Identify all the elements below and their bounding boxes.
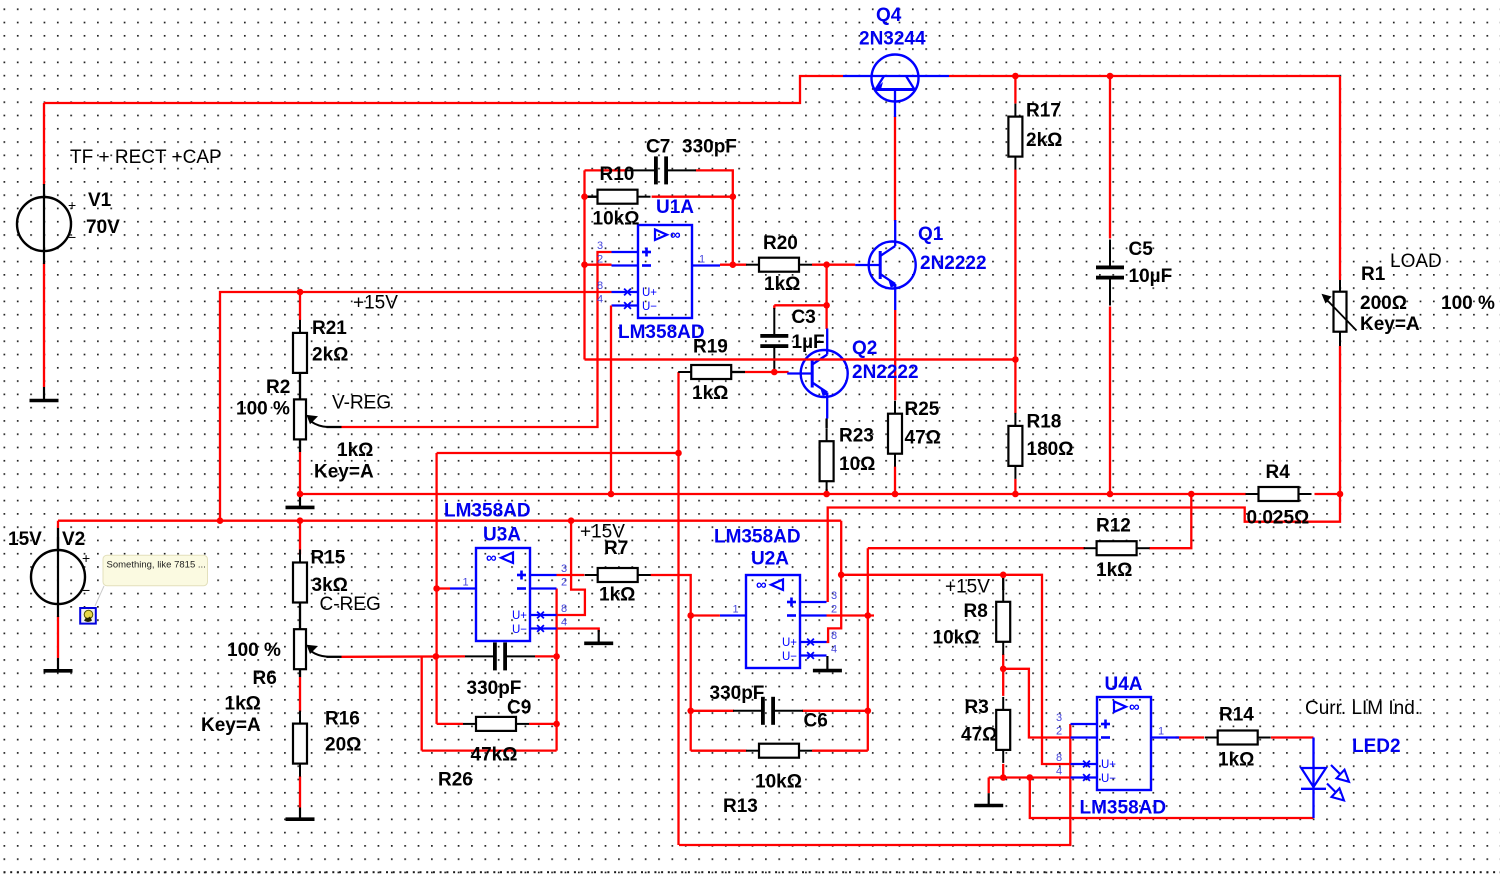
wire C7 row right xyxy=(696,170,733,264)
svg-text:10µF: 10µF xyxy=(1129,266,1173,287)
svg-text:R10: R10 xyxy=(600,164,635,185)
svg-text:4: 4 xyxy=(561,617,567,629)
wire +15V rail top xyxy=(220,292,612,521)
svg-text:LOAD: LOAD xyxy=(1390,251,1442,272)
ground U2A pin4 xyxy=(813,656,842,671)
svg-text:47Ω: 47Ω xyxy=(905,428,941,449)
resistor R16 xyxy=(293,711,307,777)
wire C6 row left xyxy=(691,710,734,712)
wire R17 top xyxy=(1014,76,1016,104)
svg-text:47kΩ: 47kΩ xyxy=(471,745,518,766)
ground R3/U4A xyxy=(974,793,1003,805)
svg-text:0.025Ω: 0.025Ω xyxy=(1247,508,1310,529)
wire R6 bottom black xyxy=(299,669,301,677)
svg-text:R12: R12 xyxy=(1096,516,1131,537)
svg-text:R18: R18 xyxy=(1027,412,1062,433)
wire V2 bottom red xyxy=(57,616,59,658)
ground V2 xyxy=(44,658,73,671)
node Q2 base xyxy=(771,369,778,376)
svg-text:LED2: LED2 xyxy=(1352,736,1401,757)
svg-text:LM358AD: LM358AD xyxy=(714,527,801,548)
wire U3A out row xyxy=(437,452,679,454)
page edge tick row xyxy=(4,871,1500,873)
wire R4 right to rail xyxy=(1315,493,1341,495)
node bus A / R12 riser xyxy=(1188,491,1195,498)
node R3 bottom xyxy=(1000,774,1007,781)
node C3 top xyxy=(823,302,830,309)
resistor R19 xyxy=(678,365,744,379)
svg-text:4: 4 xyxy=(597,294,603,306)
wire +15V branch to R8 xyxy=(841,575,1070,764)
svg-text:1kΩ: 1kΩ xyxy=(337,440,373,461)
node pin4 row branch xyxy=(1027,774,1034,781)
svg-text:U+: U+ xyxy=(1101,759,1116,771)
wire U2A pin2 stub xyxy=(826,614,874,616)
svg-text:R1: R1 xyxy=(1361,264,1386,285)
wire right rail upper xyxy=(1339,76,1341,280)
node R10 right xyxy=(730,193,737,200)
svg-text:R13: R13 xyxy=(723,796,758,817)
node R17/R18 xyxy=(1012,356,1019,363)
svg-text:3kΩ: 3kΩ xyxy=(312,575,348,596)
svg-text:1: 1 xyxy=(699,254,705,266)
wire R15 to R6 xyxy=(299,603,301,629)
svg-text:2: 2 xyxy=(597,254,603,266)
node out row / R19 riser xyxy=(675,450,682,457)
wire U3A pin2 riser xyxy=(555,589,557,751)
svg-text:V2: V2 xyxy=(62,529,85,550)
svg-text:Key=A: Key=A xyxy=(314,461,374,482)
svg-text:R23: R23 xyxy=(839,426,874,447)
resistor R20 xyxy=(746,258,812,272)
node bus A / R25 xyxy=(892,491,899,498)
svg-text:1: 1 xyxy=(463,577,469,589)
svg-text:∞: ∞ xyxy=(1129,699,1140,716)
resistor R7 xyxy=(585,568,651,582)
svg-text:C9: C9 xyxy=(507,698,531,719)
op-amp U4A xyxy=(1056,697,1179,790)
wire R17 bottom to R18 node xyxy=(1014,170,1016,414)
svg-text:100 %: 100 % xyxy=(236,399,290,420)
potentiometer R1 (rheostat) xyxy=(1322,280,1357,346)
wire C5 top xyxy=(1109,76,1111,239)
node C6 left xyxy=(687,708,694,715)
svg-text:C7: C7 xyxy=(646,137,670,158)
node +15V / R21 xyxy=(297,289,304,296)
wire R18 bottom xyxy=(1014,479,1016,494)
wire U4A pin4 ground row xyxy=(989,776,1071,778)
wire R3 bottom xyxy=(1002,764,1004,778)
svg-text:3: 3 xyxy=(1056,712,1062,724)
wire right rail lower xyxy=(1339,346,1341,494)
wire R7 right to U2A out riser xyxy=(651,575,691,751)
svg-text:1µF: 1µF xyxy=(792,332,825,353)
wire top rail right xyxy=(949,75,1340,77)
svg-text:2kΩ: 2kΩ xyxy=(1026,130,1062,151)
node bus C / U3A U+ xyxy=(568,517,575,524)
resistor R4 xyxy=(1246,487,1312,501)
svg-text:C5: C5 xyxy=(1129,239,1154,260)
svg-text:U+: U+ xyxy=(642,287,657,299)
svg-text:−: − xyxy=(68,229,76,245)
wire R14 to LED xyxy=(1271,736,1314,738)
svg-text:R17: R17 xyxy=(1026,101,1061,122)
svg-text:2N2222: 2N2222 xyxy=(920,253,987,274)
svg-text:+: + xyxy=(68,197,76,213)
node bus C / x220 xyxy=(217,517,224,524)
wire V1 bottom lead xyxy=(43,263,45,387)
svg-text:U3A: U3A xyxy=(483,525,521,546)
svg-text:U4A: U4A xyxy=(1105,674,1143,695)
svg-text:Curr. LIM Ind.: Curr. LIM Ind. xyxy=(1305,698,1420,719)
svg-text:U−: U− xyxy=(782,651,797,663)
capacitor C9 xyxy=(465,642,535,670)
svg-text:8: 8 xyxy=(831,630,837,642)
wire ground drop left xyxy=(988,778,990,794)
node R8 bottom xyxy=(1000,666,1007,673)
wire R12 row xyxy=(868,547,1085,549)
node U2A out xyxy=(687,612,694,619)
op-amp U3A xyxy=(450,548,567,641)
svg-text:R6: R6 xyxy=(253,668,277,689)
wire U1A pin2 stub xyxy=(585,264,612,266)
wire R8/R3 node to U4A pin2 xyxy=(1003,669,1070,738)
svg-text:2: 2 xyxy=(831,604,837,616)
svg-text:1: 1 xyxy=(733,604,739,616)
svg-text:1kΩ: 1kΩ xyxy=(599,585,635,606)
wire R26 row right xyxy=(529,723,557,725)
potentiometer R6 xyxy=(294,629,342,669)
svg-text:−: − xyxy=(82,582,90,598)
wire R21 to R2 xyxy=(299,373,301,400)
svg-text:LM358AD: LM358AD xyxy=(444,501,531,522)
wire R13 row right xyxy=(812,750,868,752)
svg-text:1kΩ: 1kΩ xyxy=(1096,560,1132,581)
wire U1A pin4 riser xyxy=(610,306,612,495)
node C6 right xyxy=(865,708,872,715)
ground bus A xyxy=(286,494,315,507)
wire C5 bottom xyxy=(1109,307,1111,495)
source V1 xyxy=(17,184,76,264)
svg-text:R20: R20 xyxy=(763,233,798,254)
svg-text:R19: R19 xyxy=(693,337,728,358)
svg-text:2: 2 xyxy=(561,577,567,589)
svg-text:Something, like 7815 ...: Something, like 7815 ... xyxy=(107,560,206,571)
svg-text:10kΩ: 10kΩ xyxy=(933,628,980,649)
wire U1A pin2 feedback overdraw xyxy=(585,358,1016,360)
svg-text:U−: U− xyxy=(512,624,527,636)
wire U2A out to riser xyxy=(691,614,720,616)
svg-text:4: 4 xyxy=(831,644,837,656)
capacitor C7 xyxy=(626,156,696,184)
svg-text:330pF: 330pF xyxy=(710,683,765,704)
wire C3 top branch xyxy=(774,304,826,306)
wire R8 bottom xyxy=(1002,654,1004,669)
wire Q1 node down to Q2 collector xyxy=(825,265,827,329)
ground R16 xyxy=(286,808,315,820)
svg-text:U2A: U2A xyxy=(751,549,789,570)
svg-text:3: 3 xyxy=(561,563,567,575)
svg-text:U+: U+ xyxy=(512,610,527,622)
wire R19 right stub xyxy=(732,371,745,373)
svg-text:330pF: 330pF xyxy=(467,678,522,699)
resistor R25 xyxy=(888,401,902,467)
svg-text:∞: ∞ xyxy=(756,577,767,594)
transistor Q4 2N3244 xyxy=(843,55,949,118)
wire V2 top xyxy=(57,521,59,528)
wire U4A pin3 riser xyxy=(679,724,1070,845)
svg-text:C-REG: C-REG xyxy=(320,594,381,615)
svg-text:4: 4 xyxy=(1056,766,1062,778)
wire C9 loop bottom xyxy=(422,749,557,751)
svg-text:2kΩ: 2kΩ xyxy=(312,345,348,366)
wire U1A out to R20 xyxy=(720,264,747,266)
node bus A / R23 xyxy=(823,491,830,498)
svg-text:R15: R15 xyxy=(311,548,346,569)
svg-text:8: 8 xyxy=(597,280,603,292)
transistor Q1 2N2222 xyxy=(855,220,916,310)
wire U3A pin3 to R7 xyxy=(557,574,585,576)
wire bus B xyxy=(828,494,1340,602)
wire R10 right to C7 node xyxy=(652,196,733,198)
op-amp U2A xyxy=(720,575,837,668)
node U1A pin2 xyxy=(581,261,588,268)
node U1A out xyxy=(730,261,737,268)
svg-text:U−: U− xyxy=(1101,773,1116,785)
node R10 left xyxy=(581,193,588,200)
svg-text:1kΩ: 1kΩ xyxy=(692,383,728,404)
svg-text:V-REG: V-REG xyxy=(332,393,391,414)
svg-text:U+: U+ xyxy=(782,637,797,649)
wire U2A pin2 riser xyxy=(867,548,869,751)
wire R25 bottom xyxy=(894,467,896,495)
potentiometer R2 xyxy=(294,399,342,439)
svg-text:R26: R26 xyxy=(438,770,473,791)
svg-text:15V: 15V xyxy=(8,529,42,550)
svg-text:1kΩ: 1kΩ xyxy=(1218,750,1254,771)
wire R21 top xyxy=(299,292,301,320)
wire Q1 emitter down to R25 xyxy=(894,310,896,400)
node bus A / U1A pin4 xyxy=(608,491,615,498)
svg-text:3: 3 xyxy=(597,240,603,252)
node wiper / C9 left xyxy=(433,653,440,660)
wire C7 left riser xyxy=(583,170,585,359)
node C9 right xyxy=(553,653,560,660)
node Q1 base xyxy=(823,261,830,268)
svg-text:TF + RECT +CAP: TF + RECT +CAP xyxy=(70,147,222,168)
comment note box xyxy=(95,555,208,606)
resistor R3 xyxy=(996,697,1010,763)
wire U3A out to pin1 xyxy=(437,587,450,589)
svg-text:330pF: 330pF xyxy=(682,137,737,158)
wire R20 to Q1 base xyxy=(812,264,855,266)
svg-text:R14: R14 xyxy=(1219,705,1254,726)
svg-text:R7: R7 xyxy=(604,538,628,559)
svg-text:100 %: 100 % xyxy=(227,640,281,661)
resistor R17 xyxy=(1008,104,1022,170)
node bus A / R4 right xyxy=(1337,491,1344,498)
wire C9 loop left riser xyxy=(421,656,423,750)
transistor Q2 2N2222 xyxy=(787,329,848,419)
wire C6 row right xyxy=(802,710,868,712)
svg-text:70V: 70V xyxy=(86,217,120,238)
node R8 top xyxy=(1000,572,1007,579)
LED LED2 xyxy=(1301,738,1349,819)
wire R8 top black xyxy=(1002,576,1004,590)
node bus A / R18 xyxy=(1012,491,1019,498)
svg-text:∞: ∞ xyxy=(670,227,681,244)
node bus A / R2 xyxy=(297,491,304,498)
svg-text:Q2: Q2 xyxy=(852,338,877,359)
svg-text:∞: ∞ xyxy=(486,550,497,567)
node bus C / R15 xyxy=(297,517,304,524)
resistor R10 xyxy=(585,190,651,204)
svg-text:Key=A: Key=A xyxy=(201,715,261,736)
wire R2 wiper to U1A pin3 xyxy=(342,252,612,427)
svg-text:V1: V1 xyxy=(88,190,112,211)
resistor R8 xyxy=(996,589,1010,655)
svg-text:LM358AD: LM358AD xyxy=(618,322,705,343)
wire LED return row xyxy=(1030,778,1314,819)
resistor R14 xyxy=(1205,731,1271,745)
wire R19 left riser xyxy=(677,372,679,845)
wire R6 to R16 xyxy=(299,677,301,712)
capacitor C5 xyxy=(1096,240,1124,306)
svg-text:+15V: +15V xyxy=(945,577,990,598)
resistor R26 xyxy=(463,717,529,731)
node bus A / C5 xyxy=(1107,491,1114,498)
source V2 xyxy=(31,537,90,617)
svg-text:LM358AD: LM358AD xyxy=(1080,798,1167,819)
svg-text:R8: R8 xyxy=(964,601,988,622)
svg-text:200Ω: 200Ω xyxy=(1360,293,1407,314)
svg-text:+: + xyxy=(82,550,90,566)
wire R3 top xyxy=(1002,669,1004,696)
wire U4A out to R14 xyxy=(1176,736,1204,738)
svg-text:2N2222: 2N2222 xyxy=(852,362,919,383)
wire U3A pin4 to ground xyxy=(557,629,599,633)
svg-text:C3: C3 xyxy=(792,307,816,328)
svg-text:10kΩ: 10kΩ xyxy=(755,772,802,793)
wire ground bus A xyxy=(300,493,1246,495)
wire R12 right riser xyxy=(1149,494,1191,548)
ground V1 xyxy=(30,387,59,401)
svg-text:8: 8 xyxy=(561,603,567,615)
wire R26 row left xyxy=(437,723,463,725)
svg-text:R21: R21 xyxy=(312,318,347,339)
svg-text:180Ω: 180Ω xyxy=(1027,439,1074,460)
svg-text:2N3244: 2N3244 xyxy=(859,29,926,50)
wire R2 to ground bus xyxy=(299,452,301,494)
node +15V branch xyxy=(838,572,845,579)
ground U3A pin4 xyxy=(584,630,613,643)
svg-text:Q1: Q1 xyxy=(918,224,944,245)
resistor R18 xyxy=(1008,413,1022,479)
svg-text:2: 2 xyxy=(1056,726,1062,738)
wire V1 to top rail xyxy=(44,76,843,103)
svg-text:100 %: 100 % xyxy=(1441,293,1495,314)
svg-text:R4: R4 xyxy=(1266,462,1291,483)
node R26 right xyxy=(553,721,560,728)
wire Q4 base down to Q1 xyxy=(894,116,896,221)
svg-text:47Ω: 47Ω xyxy=(961,725,997,746)
svg-text:10Ω: 10Ω xyxy=(839,454,875,475)
comment note icon xyxy=(80,608,96,624)
svg-text:U−: U− xyxy=(642,301,657,313)
svg-text:R25: R25 xyxy=(905,399,940,420)
svg-text:R2: R2 xyxy=(266,377,290,398)
svg-text:1kΩ: 1kΩ xyxy=(764,274,800,295)
wire C7 row left xyxy=(585,169,627,171)
wire +15V bus C xyxy=(58,520,841,522)
wire R23 bottom xyxy=(825,489,827,494)
resistor R15 xyxy=(293,550,307,616)
svg-text:1kΩ: 1kΩ xyxy=(225,694,261,715)
wire R2 bottom xyxy=(299,439,301,452)
capacitor C6 xyxy=(733,697,803,725)
node U3A out xyxy=(433,585,440,592)
wire R6 wiper row xyxy=(342,655,466,658)
wire R15 top xyxy=(299,521,301,555)
resistor R12 xyxy=(1084,541,1150,555)
wire V1 top lead xyxy=(43,103,45,185)
wire R10 left stub xyxy=(585,196,598,198)
wire U1A pin2 feedback to R18 node xyxy=(585,358,1016,360)
capacitor C3 xyxy=(760,308,788,374)
svg-text:Key=A: Key=A xyxy=(1360,314,1420,335)
svg-text:Q4: Q4 xyxy=(876,5,902,26)
wire V2 top black xyxy=(57,528,59,550)
wire R13 row left xyxy=(691,750,747,752)
wire U3A out riser xyxy=(435,453,437,724)
node top rail / C5 xyxy=(1107,73,1114,80)
wire C9 right to pin2 riser xyxy=(535,655,557,657)
resistor R13 xyxy=(746,744,812,758)
svg-text:C6: C6 xyxy=(804,711,828,732)
svg-text:1: 1 xyxy=(1158,726,1164,738)
resistor R21 xyxy=(293,320,307,386)
wire R19 to Q2 base xyxy=(745,371,789,373)
svg-text:R16: R16 xyxy=(325,709,360,730)
node top rail / R17 xyxy=(1012,73,1019,80)
wire R16 bottom xyxy=(299,776,301,808)
svg-text:U1A: U1A xyxy=(656,197,694,218)
svg-text:20Ω: 20Ω xyxy=(325,735,361,756)
resistor R23 xyxy=(820,428,834,494)
wire Q2 emitter black xyxy=(825,419,827,429)
svg-text:8: 8 xyxy=(1056,752,1062,764)
op-amp U1A xyxy=(597,225,720,318)
svg-text:3: 3 xyxy=(831,590,837,602)
svg-text:+15V: +15V xyxy=(353,293,398,314)
svg-text:10kΩ: 10kΩ xyxy=(593,209,640,230)
wire C3 top lead red xyxy=(773,305,775,309)
wire +15V bus C to U2A U+ xyxy=(826,521,841,642)
wire +15V to U3A U+ xyxy=(557,521,585,615)
node U2A pin2 xyxy=(865,612,872,619)
svg-text:R3: R3 xyxy=(965,697,989,718)
